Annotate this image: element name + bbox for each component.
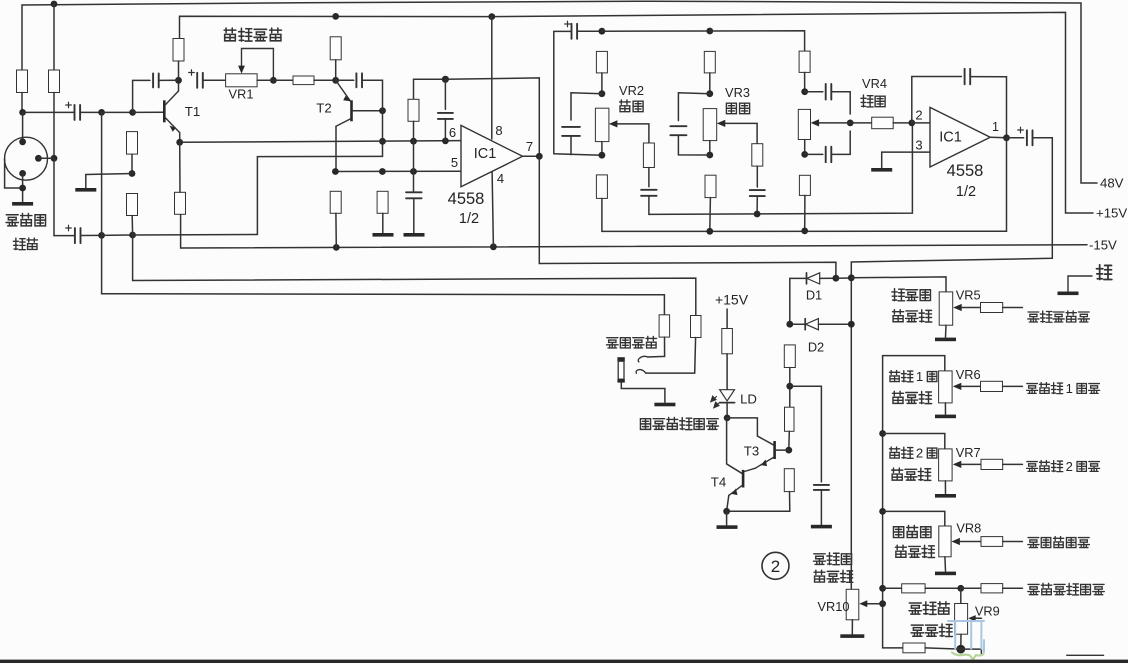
svg-text:VR6: VR6 bbox=[956, 367, 981, 382]
svg-text:2: 2 bbox=[915, 108, 922, 123]
potentiometer VR9 pan bbox=[955, 604, 968, 635]
wire bbox=[54, 235, 75, 237]
svg-text:7: 7 bbox=[526, 139, 533, 154]
svg-text:2: 2 bbox=[916, 446, 923, 461]
ground mic connector bbox=[12, 202, 33, 206]
svg-text:+15V: +15V bbox=[1096, 206, 1127, 221]
wire bbox=[961, 385, 980, 387]
wire bbox=[80, 111, 102, 113]
VR8 wiper arrow bbox=[951, 538, 960, 545]
resistor R7 interstage bbox=[293, 76, 314, 85]
wire bbox=[709, 141, 711, 155]
junction VR4 bottom node bbox=[801, 151, 808, 158]
resistor R32 left send bbox=[981, 584, 1003, 593]
label 量控制 bbox=[814, 570, 853, 582]
capacitor C15 feedback bbox=[965, 69, 971, 85]
wire tone supply left bbox=[554, 30, 572, 32]
wire tone left vertical bbox=[554, 31, 602, 155]
label 峰值电平指示 bbox=[640, 418, 718, 430]
wire bbox=[413, 198, 415, 232]
resistor R11 feedback bbox=[408, 99, 419, 121]
junction VR4 wiper node bbox=[847, 120, 854, 127]
ground IC1b pin3 bbox=[871, 168, 892, 172]
junction T1 emitter node bbox=[176, 139, 183, 146]
junction VR2 bottom node bbox=[599, 152, 606, 159]
wire XLR pin2 to node bbox=[38, 157, 54, 159]
wire bbox=[804, 72, 806, 91]
VR5 wiper arrow bbox=[953, 304, 962, 311]
wire bbox=[131, 154, 133, 173]
svg-text:VR10: VR10 bbox=[817, 599, 849, 614]
capacitor C5 T2 comp bbox=[356, 73, 362, 87]
phone plug symbol bbox=[617, 357, 624, 382]
junction cap tap bbox=[786, 383, 793, 390]
potentiometer VR2 treble bbox=[595, 108, 609, 141]
junction on bottom rail bbox=[801, 228, 808, 235]
label 去效果母线 bbox=[1028, 536, 1090, 547]
resistor R15 VR3 top bbox=[704, 51, 715, 73]
wire D1 to bus bbox=[820, 277, 836, 279]
wire T1 base bbox=[133, 111, 163, 113]
wire node A to line input R1 bbox=[102, 112, 665, 314]
svg-text:1/2: 1/2 bbox=[956, 184, 976, 200]
resistor R25 line input bbox=[659, 315, 670, 337]
wire bbox=[883, 587, 902, 589]
resistor R2 phantom 48V bbox=[49, 70, 60, 93]
wire bbox=[960, 588, 962, 603]
wire bbox=[709, 73, 711, 94]
svg-text:VR2: VR2 bbox=[619, 83, 644, 98]
ground C17 bbox=[811, 525, 832, 529]
wire bbox=[102, 234, 133, 236]
junction VR1 right bbox=[270, 77, 277, 84]
wire -15V rail bbox=[181, 215, 1087, 249]
junction VR4 top node bbox=[801, 88, 808, 95]
wire T1 collector bbox=[178, 80, 180, 91]
wire emitter rail to IC1a pin6 bbox=[180, 141, 461, 143]
wire bbox=[925, 648, 961, 649]
potentiometer VR1 gain bbox=[226, 74, 258, 87]
resistor R21 detector bbox=[784, 345, 795, 368]
label 量控制 bbox=[895, 545, 934, 557]
capacitor C3 compensation bbox=[153, 73, 159, 87]
wire T2 collector down bbox=[335, 126, 337, 171]
wire bbox=[601, 198, 603, 231]
jack contact 1 bbox=[638, 356, 648, 362]
wire bbox=[960, 634, 962, 649]
resistor R3 bias upper bbox=[127, 132, 138, 155]
wire down to lower coupling cap bbox=[53, 158, 55, 235]
resistor R29 aux2 send bbox=[981, 459, 1003, 469]
label 通道声 bbox=[909, 602, 949, 615]
wire feedback to output bbox=[970, 77, 1006, 138]
wire bbox=[444, 79, 446, 109]
junction T1 collector node bbox=[175, 77, 182, 84]
junction node A bbox=[98, 109, 105, 116]
wire pin5 rail bbox=[335, 170, 461, 172]
wire aux1 tap bbox=[883, 356, 945, 371]
potentiometer VR4 bass bbox=[798, 109, 810, 139]
svg-text:48V: 48V bbox=[1100, 176, 1124, 191]
wire bbox=[944, 557, 947, 571]
junction VR2 column top bbox=[599, 28, 606, 35]
junction VR3 column top bbox=[706, 28, 713, 35]
wire VR10 wiper to pan bbox=[883, 604, 903, 648]
wire bbox=[945, 325, 948, 337]
wire T1 emitter bbox=[179, 133, 181, 143]
junction D-node bbox=[786, 321, 793, 328]
wire bbox=[726, 354, 728, 390]
resistor R9 T2 emitter bbox=[330, 191, 341, 213]
junction on wiper bus bbox=[754, 211, 761, 218]
capacitor C10 bbox=[641, 190, 657, 196]
label 辅助2音 bbox=[889, 446, 936, 461]
wire bbox=[602, 30, 710, 32]
wire pin2 bbox=[912, 122, 930, 124]
junction VR9 top bbox=[957, 585, 964, 592]
resistor R13 wiper chain bbox=[643, 143, 654, 168]
wire T3 collector bbox=[727, 418, 773, 445]
junction VR2 top node bbox=[599, 90, 606, 97]
junction VR9 bottom bbox=[956, 645, 965, 654]
ground VR7 bbox=[935, 494, 956, 498]
wire emitter to resistor bbox=[179, 142, 181, 192]
wire T4 emitter bbox=[727, 495, 729, 511]
wire bbox=[804, 195, 806, 231]
resistor R17 VR3 bottom bbox=[705, 175, 716, 197]
VR4 wiper arrow bbox=[811, 119, 820, 126]
resistor R10 pin5 divider bbox=[377, 191, 388, 213]
wire phantom resistor 1 top bbox=[21, 5, 23, 70]
resistor R23 detector bbox=[784, 469, 794, 492]
VR3 wiper arrow bbox=[717, 120, 726, 127]
watermark green squiggle bbox=[952, 653, 984, 660]
wire bbox=[944, 403, 946, 414]
wire IC1a pin8 to +15V bbox=[491, 17, 493, 139]
label 去辅助1母线 bbox=[1027, 381, 1100, 396]
wire bbox=[335, 213, 337, 247]
wire feedback return to T2 base column bbox=[133, 156, 383, 235]
junction D1 node bbox=[833, 275, 840, 282]
wire mic hot to cap bbox=[23, 111, 75, 113]
watermark blue box bbox=[948, 621, 984, 652]
junction left-channel row bbox=[879, 585, 886, 592]
resistor R8 T2 collector load bbox=[330, 37, 341, 60]
potentiometer VR7 aux2 bbox=[939, 449, 953, 481]
label 效果音 bbox=[893, 526, 930, 538]
junction T2 collector node bbox=[332, 77, 339, 84]
label 输入 bbox=[13, 238, 37, 250]
resistor R16 wiper chain bbox=[752, 144, 763, 166]
junction T4 emitter node bbox=[723, 508, 730, 515]
junction T1 base node bbox=[129, 109, 136, 116]
wire bbox=[805, 91, 823, 93]
junction bus/D2 bbox=[848, 321, 855, 328]
resistor R14 VR2 bottom bbox=[596, 175, 607, 199]
resistor R20 VR4 bottom bbox=[799, 175, 810, 195]
ground R10 bbox=[373, 233, 394, 237]
label 去左声道母线 bbox=[1028, 583, 1105, 595]
wire jack sleeve to ground bbox=[621, 383, 665, 403]
junction bbox=[332, 168, 339, 175]
resistor R18 VR4 top bbox=[799, 51, 810, 72]
wire bbox=[868, 603, 880, 605]
junction shell/pin3 bbox=[19, 185, 26, 192]
wire bbox=[790, 323, 805, 325]
junction mic hot node bbox=[19, 109, 26, 116]
wire +48V rail bbox=[22, 1, 1097, 183]
svg-text:VR7: VR7 bbox=[956, 445, 981, 460]
wire bbox=[444, 119, 446, 141]
svg-text:VR9: VR9 bbox=[975, 604, 1000, 619]
wire bbox=[178, 61, 180, 80]
label 低音 bbox=[861, 95, 885, 107]
svg-text:4558: 4558 bbox=[947, 162, 984, 180]
capacitor C14 bass lower bbox=[826, 147, 832, 163]
capacitor C11 mid bbox=[670, 126, 686, 135]
junction bbox=[410, 168, 417, 175]
junction IC1b pin2 node bbox=[908, 120, 915, 127]
wire cap branch bbox=[790, 386, 822, 482]
circled 2 channel marker bbox=[762, 552, 789, 579]
wire VR2 bracket upper bbox=[571, 93, 602, 120]
wire IC1a output bbox=[523, 155, 540, 157]
junction +48V rail / R2 column bbox=[51, 1, 58, 8]
svg-text:VR3: VR3 bbox=[725, 85, 750, 100]
wire XLR pin3 to ground bbox=[22, 173, 24, 201]
svg-text:IC1: IC1 bbox=[474, 146, 497, 162]
ground VR5 bbox=[935, 338, 956, 342]
VR1 wiper arrow bbox=[238, 66, 245, 74]
wire output bus down to fader bbox=[851, 138, 1052, 590]
wire bbox=[273, 79, 293, 81]
wire bbox=[336, 79, 354, 81]
wire VR2 wiper bbox=[617, 124, 649, 143]
wire bbox=[648, 168, 650, 187]
bottom border bbox=[0, 660, 1128, 663]
svg-text:VR8: VR8 bbox=[956, 521, 981, 536]
wire bbox=[1003, 385, 1023, 387]
svg-text:T4: T4 bbox=[711, 475, 726, 490]
wire feedback from IC1a output bbox=[445, 78, 539, 156]
junction LED cathode node bbox=[724, 415, 731, 422]
svg-text:2: 2 bbox=[771, 557, 780, 576]
svg-text:6: 6 bbox=[449, 125, 456, 140]
wire IC1a pin4 to -15V bbox=[492, 172, 493, 247]
wire bbox=[726, 511, 728, 525]
wire +15V rail bbox=[180, 12, 1094, 213]
wire bbox=[1003, 463, 1023, 465]
junction bbox=[129, 232, 136, 239]
wire tone bottom rail to IC1b output bbox=[602, 230, 1007, 232]
junction bbox=[410, 138, 417, 145]
wire D1 anode down bbox=[790, 278, 807, 324]
capacitor C1 input coupling + bbox=[66, 102, 80, 120]
svg-text:T1: T1 bbox=[185, 104, 200, 119]
junction IC1a output node bbox=[536, 153, 543, 160]
wire VR3 bracket lower bbox=[678, 135, 709, 155]
wire bbox=[961, 648, 982, 650]
resistor R30 effect send bbox=[981, 537, 1003, 547]
wire aux2 tap bbox=[883, 434, 945, 449]
capacitor C16 output + bbox=[1018, 127, 1033, 145]
wire bbox=[944, 481, 946, 494]
wire VR9 wiper bbox=[976, 617, 982, 619]
LED LD bbox=[711, 390, 735, 408]
svg-text:IC1: IC1 bbox=[939, 130, 962, 146]
wire output to tone bottom rail bbox=[1006, 138, 1008, 231]
label 去监听母线 bbox=[1028, 311, 1090, 322]
XLR microphone connector bbox=[5, 137, 48, 180]
label 量控制 bbox=[892, 468, 931, 480]
svg-text:4558: 4558 bbox=[448, 190, 485, 208]
wire bbox=[960, 541, 981, 543]
wire VR9 wiper stub bbox=[980, 645, 982, 654]
VR10 wiper arrow bbox=[859, 600, 867, 607]
svg-text:1: 1 bbox=[992, 120, 999, 134]
svg-text:1: 1 bbox=[916, 369, 923, 384]
svg-text:2: 2 bbox=[1066, 459, 1073, 474]
diode D2 bbox=[805, 319, 818, 330]
transistor T3 bbox=[755, 441, 776, 468]
label 线路输入 bbox=[607, 337, 657, 349]
resistor R22 detector bbox=[785, 407, 795, 431]
wire comp cap left bbox=[133, 80, 150, 112]
wire bbox=[756, 166, 758, 187]
label 量控制 bbox=[892, 391, 931, 403]
wire VR3 bracket upper bbox=[678, 93, 709, 121]
label 量控制 bbox=[893, 310, 932, 322]
svg-text:1/2: 1/2 bbox=[459, 211, 479, 227]
svg-text:-15V: -15V bbox=[1089, 238, 1117, 253]
VR9 wiper arrow bbox=[968, 615, 976, 621]
svg-text:3: 3 bbox=[915, 138, 922, 153]
junction VR3 bottom node bbox=[706, 152, 713, 159]
label 辅助1音 bbox=[889, 369, 936, 384]
svg-text:+15V: +15V bbox=[715, 292, 749, 308]
wire bbox=[81, 234, 102, 236]
junction -15V rail / IC1a pin4 bbox=[490, 243, 497, 250]
wire bbox=[961, 587, 981, 589]
wire bbox=[21, 93, 23, 113]
wire effect tap bbox=[883, 511, 945, 526]
junction VR10 wiper node bbox=[879, 600, 886, 607]
wire bbox=[831, 131, 850, 154]
svg-text:D1: D1 bbox=[806, 288, 822, 303]
VR2 wiper arrow bbox=[609, 120, 618, 127]
wire bbox=[413, 172, 415, 193]
label 增益调整 bbox=[224, 28, 281, 41]
wire send bus column bbox=[882, 356, 884, 604]
wire to jack contact 1 bbox=[648, 337, 665, 357]
label 中音 bbox=[726, 103, 749, 113]
label 高音 bbox=[620, 100, 644, 112]
wire bbox=[893, 122, 912, 124]
junction XLR pin2 node bbox=[51, 155, 58, 162]
ground bias midpoint bbox=[75, 188, 96, 192]
wire T2 base bbox=[353, 110, 383, 112]
transistor T1 bbox=[163, 91, 180, 133]
potentiometer VR8 effect bbox=[939, 526, 951, 557]
wire bbox=[257, 79, 273, 81]
svg-text:5: 5 bbox=[451, 155, 458, 170]
wire monitor send tap to VR5 bbox=[851, 277, 946, 292]
junction pin6 node bbox=[442, 138, 449, 145]
junction bbox=[379, 168, 386, 175]
potentiometer VR5 monitor bbox=[939, 292, 953, 325]
junction T2 base node bbox=[379, 107, 386, 114]
junction effect tap bbox=[879, 508, 886, 515]
svg-text:LD: LD bbox=[740, 392, 757, 407]
label 通道音 bbox=[814, 553, 852, 565]
wire bbox=[851, 620, 853, 634]
wire bbox=[804, 140, 806, 155]
capacitor C12 bbox=[750, 190, 765, 196]
ground VR8 bbox=[935, 572, 956, 576]
resistor R19 bass to pin2 bbox=[872, 117, 894, 129]
diode D1 bbox=[807, 273, 820, 284]
VR6 wiper arrow bbox=[953, 383, 962, 390]
wire bbox=[788, 431, 791, 450]
label 麦克风 bbox=[6, 214, 45, 226]
junction node B bbox=[98, 232, 105, 239]
wire T4 base from LED node bbox=[727, 418, 742, 473]
capacitor C8 tone + bbox=[565, 21, 577, 39]
wire bbox=[820, 490, 822, 525]
wire bbox=[726, 403, 728, 418]
wire T2 base column down bbox=[382, 111, 384, 157]
svg-text:VR4: VR4 bbox=[862, 76, 887, 91]
wire bbox=[314, 79, 336, 81]
capacitor C9 treble bbox=[562, 127, 580, 136]
label 像控制 bbox=[911, 624, 952, 637]
junction +15V rail / T2 collector resistor bbox=[332, 13, 339, 20]
resistor R31 pan left bbox=[902, 584, 925, 593]
stray mark bottom right bbox=[1067, 654, 1104, 656]
label 监听音 bbox=[892, 289, 931, 301]
junction on bottom rail bbox=[706, 228, 713, 235]
wire bbox=[756, 196, 758, 214]
wire bbox=[961, 463, 981, 465]
capacitor C6 bbox=[406, 192, 422, 198]
op-amp IC1a 4558 bbox=[461, 125, 523, 186]
junction aux2 tap bbox=[879, 430, 886, 437]
wire T3 base bbox=[776, 449, 789, 451]
wire VR1 wiper bracket bbox=[242, 49, 274, 81]
capacitor C13 bass upper bbox=[826, 84, 832, 100]
wire bias midpoint to ground bbox=[86, 174, 132, 188]
resistor R33 pan feed bbox=[903, 643, 925, 653]
ground VR6 bbox=[935, 415, 956, 419]
wire to VR4 column bbox=[710, 31, 805, 51]
wire bbox=[850, 122, 872, 124]
resistor R6 T1 collector load bbox=[173, 39, 184, 62]
capacitor C17 detector bbox=[814, 485, 829, 490]
ground bar of 地 terminal bbox=[1058, 292, 1079, 296]
resistor R12 VR2 top bbox=[596, 51, 607, 73]
wire bbox=[1003, 541, 1023, 543]
label 地 bbox=[1096, 265, 1111, 280]
wire VR3 wiper bbox=[725, 123, 757, 143]
wire node T1-base branch to line input R2 bbox=[133, 278, 696, 315]
wire bbox=[709, 198, 712, 232]
wire bbox=[131, 216, 133, 236]
svg-text:VR5: VR5 bbox=[956, 288, 981, 303]
wire bbox=[925, 587, 961, 589]
ground T4 emitter bbox=[717, 525, 738, 529]
wire +15V stub bbox=[726, 309, 728, 329]
svg-text:1: 1 bbox=[1066, 381, 1073, 396]
